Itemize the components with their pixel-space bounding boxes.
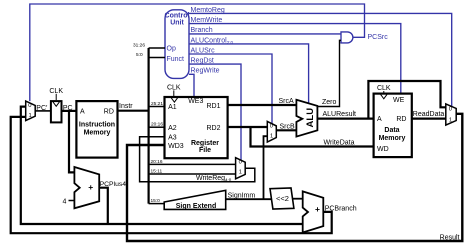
svg-text:31:26: 31:26 [133, 43, 145, 49]
wire RegDst (blue) [189, 64, 241, 160]
shifter <<2 [270, 188, 294, 209]
wire SignImm [226, 198, 272, 200]
adder PCBranch [303, 191, 324, 232]
data memory [374, 94, 412, 158]
svg-text:WD3: WD3 [168, 143, 184, 150]
wire PCSrc select (blue, top return to PC mux) [30, 4, 365, 101]
svg-text:Unit: Unit [170, 20, 184, 27]
wire WriteReg loop to A3 [140, 137, 255, 182]
wire WriteData branch [251, 127, 374, 147]
and gate PCSrc [341, 32, 353, 43]
mux Result (MemtoReg) [446, 104, 456, 125]
svg-text:4: 4 [63, 198, 67, 205]
svg-text:PCPlus4: PCPlus4 [100, 181, 127, 188]
svg-text:File: File [199, 147, 211, 154]
wire ALUResult [317, 117, 373, 119]
svg-text:Result: Result [440, 235, 460, 242]
svg-text:Zero: Zero [322, 99, 337, 106]
mux WriteReg (RegDst) [236, 158, 246, 179]
wire RD2 to SrcB mux [228, 126, 268, 128]
svg-text:ALUResult: ALUResult [323, 111, 357, 118]
svg-text:SrcB: SrcB [280, 123, 296, 130]
svg-text:SignImm: SignImm [228, 192, 256, 199]
wire Funct tap 5:0 [149, 57, 165, 59]
svg-text:25:21: 25:21 [151, 101, 163, 107]
svg-text:+: + [315, 204, 320, 214]
svg-text:RegWrite: RegWrite [191, 68, 220, 75]
svg-text:WriteReg4:0: WriteReg4:0 [196, 175, 232, 183]
wire ALUControl (blue) [189, 44, 309, 104]
svg-text:WriteData: WriteData [324, 140, 355, 147]
svg-text:0: 0 [28, 103, 31, 109]
svg-text:SrcA: SrcA [279, 98, 295, 105]
svg-text:Sign Extend: Sign Extend [176, 203, 216, 210]
svg-text:Data: Data [384, 127, 399, 134]
svg-text:WE3: WE3 [188, 98, 203, 105]
wire SignImm branch up to SrcB mux [264, 136, 268, 199]
wire PCPlus4 [99, 188, 108, 224]
wire Instr bus [118, 110, 149, 112]
wire ReadData [412, 117, 446, 119]
svg-text:1: 1 [29, 113, 32, 119]
alu U1 [296, 100, 317, 137]
svg-text:Op: Op [167, 46, 176, 53]
svg-text:0: 0 [270, 124, 273, 130]
wire PCBranch return to PC mux 1 [11, 117, 332, 233]
wire Branch (blue) [189, 33, 341, 35]
wire RD1 SrcA [228, 104, 297, 106]
svg-text:A1: A1 [168, 104, 177, 111]
wire A2 tap 20:16 [149, 126, 165, 128]
svg-text:15:11: 15:11 [151, 169, 163, 175]
wire SignExtend tap 15:0 [149, 203, 165, 205]
svg-text:ALUSrc: ALUSrc [191, 47, 216, 54]
svg-text:1: 1 [239, 170, 242, 176]
wire PC' [35, 110, 51, 112]
mux PC source [26, 101, 36, 121]
svg-text:ReadData: ReadData [413, 111, 445, 118]
svg-text:ALU: ALU [305, 108, 316, 128]
svg-text:A: A [80, 108, 85, 115]
wire A1 tap 25:21 [149, 106, 165, 108]
svg-text:5:0: 5:0 [136, 52, 143, 58]
wire RegWrite (blue) [189, 74, 194, 97]
wire PC to instruction memory [62, 110, 77, 112]
wire const 4 [69, 200, 75, 202]
control unit [165, 10, 189, 79]
wire PC tap down to PCPlus4 adder [69, 111, 74, 172]
svg-text:RegDst: RegDst [191, 58, 214, 65]
svg-text:Memory: Memory [379, 135, 406, 142]
register file [165, 97, 228, 158]
mux SrcB (ALUSrc) [267, 121, 276, 142]
wire Op tap 31:26 [149, 47, 165, 49]
svg-text:Branch: Branch [191, 27, 213, 34]
svg-text:20:16: 20:16 [151, 159, 163, 165]
svg-text:RD: RD [396, 116, 406, 123]
sign extend [164, 190, 226, 209]
svg-text:1: 1 [449, 117, 452, 123]
svg-text:<<2: <<2 [276, 194, 289, 203]
svg-text:WD: WD [377, 146, 389, 153]
svg-text:0: 0 [239, 160, 242, 166]
wire PCPlus4 bottom bus to PC mux 0 and branch adder [21, 107, 303, 224]
wire MemtoReg (blue) [189, 13, 452, 106]
svg-text:A: A [377, 116, 382, 123]
wire ALUResult bypass over data memory [368, 81, 445, 119]
svg-text:RD: RD [104, 108, 114, 115]
svg-text:A3: A3 [168, 135, 177, 142]
svg-text:15:0: 15:0 [151, 198, 161, 204]
svg-text:Funct: Funct [167, 56, 185, 63]
svg-text:+: + [88, 182, 93, 192]
instruction memory [76, 101, 117, 158]
svg-text:CLK: CLK [49, 88, 63, 95]
adder PCPlus4 [74, 167, 99, 208]
svg-text:Control: Control [165, 12, 190, 19]
svg-text:0: 0 [449, 106, 452, 112]
wire Result bus [127, 114, 462, 241]
clock triangle data memory [381, 94, 387, 98]
wire SrcB [276, 129, 296, 131]
svg-text:1: 1 [270, 133, 273, 139]
clock triangle PC [53, 102, 59, 106]
svg-text:MemtoReg: MemtoReg [191, 7, 225, 14]
wire SignImmSh [293, 198, 303, 200]
wire WriteReg tap 20:16 [149, 163, 236, 165]
svg-text:A2: A2 [168, 125, 177, 132]
svg-text:WE: WE [393, 97, 405, 104]
svg-text:RD2: RD2 [206, 125, 220, 132]
svg-text:Instr: Instr [119, 103, 133, 110]
svg-text:RD1: RD1 [206, 103, 220, 110]
svg-text:20:16: 20:16 [151, 122, 163, 128]
svg-text:PCSrc: PCSrc [368, 34, 389, 41]
wire Zero to AND gate [317, 40, 341, 106]
svg-text:Memory: Memory [84, 129, 111, 136]
svg-text:ALUControl2:0: ALUControl2:0 [191, 37, 234, 45]
wire MemWrite (blue) [189, 24, 401, 94]
register PC [51, 101, 62, 122]
wire WriteReg tap 15:11 [149, 173, 236, 175]
clock triangle register file [171, 98, 177, 102]
svg-text:Instruction: Instruction [79, 121, 115, 128]
svg-text:MemWrite: MemWrite [191, 17, 223, 24]
wire ALUSrc (blue) [189, 54, 272, 124]
wire Instr vertical bus [148, 48, 150, 204]
